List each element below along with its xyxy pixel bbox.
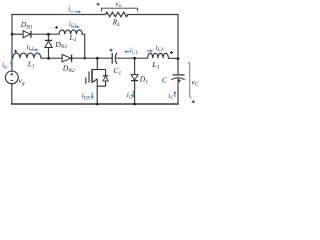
wire source bottom to bottom rail	[11, 84, 13, 104]
arrow iL1	[30, 49, 36, 51]
bracket vo measurement	[102, 8, 138, 11]
junction dot right rail L3	[177, 57, 180, 60]
voltage source vg	[5, 71, 18, 84]
svg-text:iL2: iL2	[69, 19, 77, 29]
diode D1	[131, 75, 138, 81]
wire D1 top lead	[134, 58, 136, 74]
wire rail3 DN2 to C1	[72, 57, 112, 59]
junction dot rail3 L2 branch	[84, 57, 86, 59]
arrow iC	[174, 93, 176, 97]
mosfet body diode top lead	[105, 70, 107, 76]
wire L3 to right rail	[168, 57, 178, 59]
svg-text:D1: D1	[139, 75, 149, 85]
arrow iL2	[72, 26, 78, 28]
junction dot rail3 mosfet drain	[96, 57, 99, 60]
arrow ig	[10, 63, 12, 66]
junction dot rail3 D1	[133, 57, 136, 60]
mosfet body diode bottom lead	[105, 81, 107, 86]
svg-text:ig: ig	[2, 60, 7, 70]
wire rail2 DN1 to L2	[32, 33, 59, 35]
svg-text:io: io	[68, 4, 73, 14]
wire top rail left segment	[12, 14, 106, 16]
svg-text:C1: C1	[113, 66, 121, 76]
capacitor C1 plate right curved	[115, 53, 117, 65]
capacitor C plate bottom curved	[171, 78, 184, 80]
svg-text:L3: L3	[151, 60, 159, 70]
svg-text:L1: L1	[27, 59, 35, 69]
inductor L3	[148, 53, 169, 58]
plus sign of vo	[97, 3, 100, 6]
wire left rail	[11, 15, 13, 59]
inductor L1	[13, 53, 41, 58]
mosfet drain lead	[96, 58, 98, 69]
inductor L2	[59, 30, 82, 34]
junction dot bottom rail mosfet	[96, 103, 99, 106]
svg-text:iL3: iL3	[155, 43, 163, 53]
plus sign right of L3	[170, 51, 173, 54]
diode DN3	[45, 40, 52, 47]
wire bottom rail	[12, 103, 178, 105]
wire rail3 L1 to DN2	[41, 57, 62, 59]
svg-text:iDS: iDS	[82, 91, 91, 101]
arrow iD	[132, 91, 134, 95]
arrow iL3	[147, 50, 151, 52]
plus sign inside vg	[11, 73, 14, 76]
plus sign above L1	[14, 50, 17, 53]
svg-text:vg: vg	[18, 76, 24, 86]
wire right rail cap to bottom rail	[177, 79, 179, 104]
plus sign of vC	[192, 100, 195, 103]
svg-text:iC1: iC1	[130, 46, 139, 56]
mosfet source diagonal	[92, 79, 97, 83]
junction dot left rail rail2	[11, 33, 14, 36]
mosfet channel bar	[91, 69, 93, 82]
arrow io	[74, 11, 78, 13]
wire top rail right segment	[128, 14, 178, 16]
wire D1 bottom lead	[134, 81, 136, 104]
mosfet body diode bottom connect	[97, 85, 105, 87]
wire DN3 bottom lead	[48, 48, 50, 59]
mosfet source lead	[96, 79, 98, 104]
junction dot rail3 DN3	[47, 57, 50, 60]
svg-text:C: C	[162, 76, 168, 85]
arrow iC1	[126, 51, 130, 53]
plus sign of C1	[110, 49, 113, 52]
wire rail3 C1 to L3	[117, 57, 148, 59]
capacitor C plate top	[173, 74, 185, 76]
svg-text:L2: L2	[69, 33, 77, 43]
mosfet gate stub	[85, 77, 87, 84]
mosfet body diode	[103, 76, 108, 81]
wire right rail upper	[177, 15, 179, 75]
mosfet drain bar horizontal	[92, 69, 106, 71]
wire L2 right end bend down to rail3	[82, 34, 85, 58]
minus sign inside vg	[11, 79, 14, 81]
svg-text:iC: iC	[168, 91, 174, 101]
capacitor C1 plate left	[111, 53, 113, 64]
svg-text:DN1: DN1	[20, 20, 33, 30]
mosfet gate bar	[88, 71, 90, 82]
wire rail2 from left rail to DN1	[12, 33, 23, 35]
junction dot rail2 DN3	[47, 33, 50, 36]
wire left rail to source top	[11, 58, 13, 71]
svg-text:RL: RL	[112, 17, 121, 27]
diode DN1	[23, 31, 31, 38]
svg-text:DN3: DN3	[54, 40, 67, 50]
arrow iDS	[91, 92, 93, 96]
plus sign of C	[178, 79, 181, 82]
vC measurement line	[188, 62, 191, 97]
resistor RL	[106, 12, 128, 17]
svg-text:vo: vo	[115, 0, 121, 9]
junction dot bottom rail D1	[133, 103, 136, 106]
mosfet Q1	[86, 58, 106, 104]
svg-text:iL1: iL1	[26, 42, 34, 52]
svg-text:DN2: DN2	[62, 64, 75, 74]
svg-text:vC: vC	[191, 77, 198, 87]
wire DN3 top lead	[48, 34, 50, 40]
plus sign left of L2	[55, 26, 58, 29]
diode DN2	[62, 55, 72, 62]
